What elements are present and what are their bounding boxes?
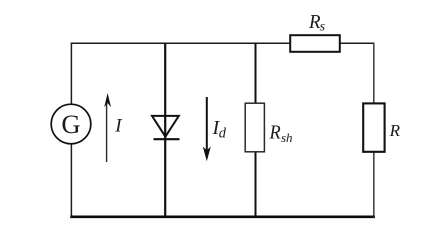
svg-text:s: s (320, 19, 326, 34)
svg-text:d: d (219, 126, 227, 142)
svg-text:G: G (61, 109, 80, 139)
svg-text:R: R (389, 121, 401, 140)
svg-text:sh: sh (281, 130, 293, 145)
svg-text:R: R (269, 121, 281, 143)
